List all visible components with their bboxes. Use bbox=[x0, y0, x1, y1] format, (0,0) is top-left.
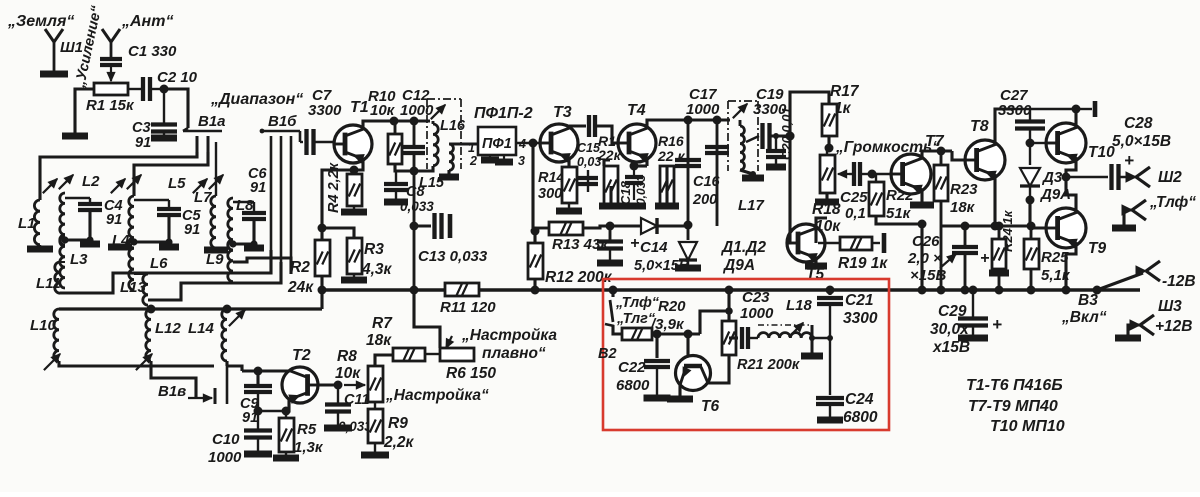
svg-text:С14: С14 bbox=[640, 239, 668, 256]
svg-text:С2 10: С2 10 bbox=[157, 69, 198, 86]
wire L11 bottom staircase bbox=[60, 250, 271, 293]
wire emitter node to C28 bbox=[1066, 176, 1108, 178]
svg-text:В1б: В1б bbox=[268, 113, 297, 130]
svg-text:91: 91 bbox=[135, 135, 151, 151]
inductor L7 bbox=[211, 196, 216, 248]
winding bottom to ground bbox=[740, 170, 753, 174]
svg-text:В1в: В1в bbox=[158, 383, 186, 400]
trimmer L14 bbox=[229, 310, 245, 326]
capacitor C17 1000 right drop bbox=[716, 120, 719, 226]
T7 emitter ground bbox=[920, 191, 923, 205]
T10 emitter down bbox=[1066, 160, 1076, 177]
resistor R23 18к bbox=[934, 165, 948, 201]
svg-text:„Ант“: „Ант“ bbox=[121, 13, 173, 30]
svg-text:R9: R9 bbox=[388, 415, 408, 432]
svg-text:5,1к: 5,1к bbox=[1041, 267, 1071, 284]
svg-text:R25: R25 bbox=[1041, 249, 1069, 266]
wire oscillator row bbox=[59, 307, 322, 310]
ground under C3 bbox=[163, 132, 165, 138]
svg-text:5,0×15В: 5,0×15В bbox=[1112, 133, 1171, 150]
svg-text:С1 330: С1 330 bbox=[128, 43, 177, 60]
capacitor C6 bbox=[233, 201, 254, 203]
capacitor C9 91 bbox=[244, 384, 272, 388]
transistor T9 bbox=[1046, 208, 1086, 248]
T4 collector bbox=[647, 120, 688, 127]
svg-text:„Земля“: „Земля“ bbox=[7, 13, 74, 30]
resistor R21 200к bbox=[722, 321, 736, 355]
diode Д1 bbox=[641, 218, 657, 234]
svg-text:В2: В2 bbox=[598, 346, 617, 362]
wire C9 node to R5 bbox=[258, 410, 286, 412]
svg-text:„Настройка: „Настройка bbox=[461, 327, 557, 344]
transistor T6 bbox=[676, 356, 711, 391]
wire R21 top to bus bbox=[727, 290, 730, 321]
svg-text:R21 200к: R21 200к bbox=[737, 357, 800, 373]
svg-text:3300: 3300 bbox=[308, 102, 342, 119]
wire C19 to C20 node bbox=[770, 134, 790, 137]
wire L18 to C21 line bbox=[812, 337, 830, 339]
ground under C8 bbox=[395, 190, 397, 202]
svg-text:„Тлф“: „Тлф“ bbox=[615, 295, 660, 311]
resistor R12 200к bbox=[528, 243, 543, 279]
svg-text:Ш2: Ш2 bbox=[1158, 169, 1182, 186]
wire C9 to C10 bbox=[257, 392, 259, 411]
jack Ш2 bbox=[1126, 172, 1136, 182]
T3 emitter down bbox=[567, 159, 570, 167]
node R20 right bbox=[652, 332, 700, 335]
svg-text:R2: R2 bbox=[290, 259, 310, 276]
svg-text:Ш3: Ш3 bbox=[1158, 298, 1182, 315]
svg-text:R5: R5 bbox=[297, 421, 317, 438]
wire R17 bottom bbox=[827, 136, 830, 148]
wire L10 bottom bbox=[59, 361, 180, 366]
T6 collector bbox=[708, 355, 729, 383]
ground under Ш1 bbox=[40, 71, 68, 78]
T9 base wire bbox=[1030, 200, 1046, 228]
T2 collector wire to C9 node bbox=[258, 369, 290, 372]
svg-text:В3: В3 bbox=[1078, 292, 1098, 309]
resistor R20 3,9к bbox=[622, 328, 652, 340]
svg-text:T10 МП10: T10 МП10 bbox=[990, 418, 1065, 435]
svg-text:R20: R20 bbox=[658, 298, 686, 315]
svg-text:24к: 24к bbox=[287, 279, 314, 296]
ground under C10 bbox=[257, 438, 259, 454]
capacitor near R14 bbox=[587, 170, 589, 192]
transformer box dashed bbox=[728, 101, 758, 171]
svg-text:2: 2 bbox=[469, 154, 477, 168]
capacitor C20 0,01 bbox=[775, 136, 777, 149]
capacitor C13 0,033 bbox=[414, 225, 431, 228]
svg-text:+: + bbox=[630, 235, 639, 252]
ground under C22 bbox=[656, 367, 658, 398]
bus node Тлф switch bbox=[609, 286, 618, 295]
inductor L9 bbox=[228, 240, 233, 282]
svg-text:С23: С23 bbox=[742, 289, 770, 306]
switch В1б wires down bbox=[270, 136, 273, 250]
jack Тлф bbox=[1122, 205, 1132, 215]
ground under R9 bbox=[374, 443, 376, 455]
trimmer L10 bbox=[44, 354, 60, 370]
svg-text:R11 120: R11 120 bbox=[440, 299, 496, 316]
svg-text:6800: 6800 bbox=[616, 377, 650, 394]
svg-text:L2: L2 bbox=[82, 173, 100, 190]
svg-text:0,1: 0,1 bbox=[845, 205, 866, 222]
ground under C6 branch bbox=[253, 244, 255, 248]
wire L12 bottom bbox=[151, 361, 180, 378]
wire L5 top to В1а bbox=[134, 152, 208, 196]
wire L1 top to В1а bbox=[40, 152, 197, 200]
svg-text:6800: 6800 bbox=[843, 409, 878, 426]
wire R13 node up to T3 base node bbox=[531, 143, 534, 228]
svg-text:С11: С11 bbox=[344, 392, 370, 408]
svg-text:„Тлг“: „Тлг“ bbox=[616, 311, 656, 327]
svg-text:+: + bbox=[1124, 151, 1134, 170]
svg-text:+: + bbox=[980, 250, 989, 267]
svg-text:С24: С24 bbox=[845, 391, 874, 408]
wire R17 top bbox=[790, 92, 829, 136]
svg-text:2,0 ×: 2,0 × bbox=[907, 250, 942, 267]
svg-text:В1а: В1а bbox=[198, 113, 226, 130]
svg-text:×15В: ×15В bbox=[910, 267, 946, 284]
svg-text:„Вкл“: „Вкл“ bbox=[1061, 309, 1107, 326]
svg-text:С26: С26 bbox=[912, 233, 940, 250]
capacitor C25 0,1 bbox=[852, 162, 856, 186]
wire to T2 stage bbox=[227, 366, 242, 371]
bus to R2 node bbox=[318, 286, 327, 295]
wire Тлг to R20 bbox=[613, 325, 622, 334]
main bus wire bbox=[322, 288, 1140, 292]
svg-text:91: 91 bbox=[184, 222, 200, 238]
svg-text:Д9А: Д9А bbox=[722, 257, 755, 274]
svg-text:0,033: 0,033 bbox=[634, 175, 648, 205]
trimmer transformer bbox=[733, 104, 747, 118]
capacitor bar after R19 bbox=[872, 242, 880, 244]
capacitor C11 0,033 bbox=[337, 385, 339, 403]
svg-text:„Диапазон“: „Диапазон“ bbox=[210, 91, 303, 108]
ground under C14 bbox=[609, 249, 611, 263]
resistor R13 43к bbox=[549, 222, 583, 235]
svg-text:18к: 18к bbox=[950, 199, 976, 216]
wire L15 bottom to ground bbox=[447, 170, 450, 177]
trimmer L5 arrows bbox=[111, 179, 125, 193]
wire C25 to T7 base bbox=[872, 173, 891, 175]
red highlight rectangle bbox=[603, 279, 889, 430]
svg-text:1000: 1000 bbox=[400, 102, 434, 119]
svg-text:плавно“: плавно“ bbox=[482, 345, 546, 362]
capacitor C8 0,033 bbox=[395, 171, 397, 182]
wire L13 bottom staircase bbox=[148, 262, 281, 300]
capacitor C16 200 left drop bbox=[687, 120, 690, 225]
resistor R25 5,1к bbox=[1024, 239, 1039, 269]
resistor R22 51к bbox=[869, 182, 884, 216]
trimmer L2 bbox=[43, 179, 57, 193]
svg-text:L17: L17 bbox=[738, 197, 765, 214]
capacitor C10 1000 bbox=[257, 411, 259, 430]
ground under C4 branch bbox=[89, 240, 91, 244]
ground Ш3 bbox=[1128, 325, 1140, 338]
inductor L15 winding bbox=[449, 144, 453, 170]
ground pins ПФ1 bbox=[489, 155, 491, 160]
svg-text:1: 1 bbox=[468, 141, 475, 155]
ground under Д2 bbox=[687, 260, 689, 268]
wire T7 to T8 base bbox=[937, 147, 946, 156]
svg-text:Д1.Д2: Д1.Д2 bbox=[720, 239, 766, 256]
svg-text:ПФ1: ПФ1 bbox=[482, 136, 512, 152]
switch В2 blade bbox=[611, 290, 614, 297]
resistor R9 2,2к bbox=[374, 402, 376, 409]
svg-text:L14: L14 bbox=[188, 320, 215, 337]
svg-text:С29: С29 bbox=[938, 303, 967, 320]
svg-text:4,3к: 4,3к bbox=[361, 261, 393, 278]
svg-text:L16: L16 bbox=[440, 118, 466, 134]
capacitor C4 91 bbox=[65, 197, 90, 199]
jack -12В bbox=[1136, 266, 1146, 276]
resistor R3 4,3к bbox=[347, 238, 362, 274]
trimmer L12 bbox=[136, 354, 152, 370]
T9 collector up bbox=[1066, 177, 1076, 212]
capacitor C12 in drop bbox=[413, 121, 416, 145]
ground under C29 bbox=[972, 326, 974, 338]
svg-text:R1 15к: R1 15к bbox=[86, 97, 135, 114]
svg-text:T2: T2 bbox=[292, 347, 311, 364]
svg-text:T1-T6 П416Б: T1-T6 П416Б bbox=[966, 377, 1063, 394]
svg-text:3300: 3300 bbox=[998, 102, 1032, 119]
wire R10 bottom to node bbox=[395, 164, 414, 171]
svg-text:91: 91 bbox=[106, 212, 122, 228]
svg-text:3: 3 bbox=[518, 154, 525, 168]
svg-text:R3: R3 bbox=[364, 241, 384, 258]
T10 collector bar bbox=[1076, 108, 1092, 110]
diode Д3 Д9А bbox=[1029, 143, 1031, 165]
svg-text:2,2к: 2,2к bbox=[383, 434, 415, 451]
svg-text:R16: R16 bbox=[658, 133, 684, 149]
T5 collector bbox=[816, 218, 827, 227]
svg-text:18к: 18к bbox=[366, 332, 392, 349]
svg-text:L1: L1 bbox=[18, 215, 36, 232]
svg-text:Д3: Д3 bbox=[1041, 169, 1063, 186]
svg-text:T8: T8 bbox=[970, 118, 989, 135]
T5 emitter bbox=[814, 259, 817, 266]
svg-text:T4: T4 bbox=[627, 102, 646, 119]
capacitor C24 6800 bbox=[829, 338, 831, 395]
svg-text:1,3к: 1,3к bbox=[294, 439, 324, 456]
wire C4 branch bbox=[65, 210, 90, 240]
electrolytic C26 bbox=[964, 226, 967, 245]
switch В3 bbox=[1093, 286, 1102, 295]
T10 collector wire bbox=[1074, 109, 1077, 126]
svg-text:С22: С22 bbox=[618, 359, 646, 376]
svg-text:ПФ1П-2: ПФ1П-2 bbox=[474, 105, 533, 122]
svg-text:L9: L9 bbox=[206, 251, 224, 268]
potentiometer R1 15к bbox=[94, 83, 128, 95]
ground under C24 bbox=[829, 404, 831, 420]
ground under L7 bbox=[215, 248, 217, 250]
svg-text:С3: С3 bbox=[132, 120, 151, 136]
svg-text:L7: L7 bbox=[194, 189, 212, 206]
svg-text:L5: L5 bbox=[168, 175, 186, 192]
trimmer L8 arrows bbox=[193, 179, 207, 193]
T1 emitter node bbox=[354, 160, 363, 170]
svg-text:+: + bbox=[992, 315, 1002, 334]
inductor transformer winding bbox=[730, 119, 740, 121]
node C9 top bbox=[242, 371, 258, 384]
ground Тлф bbox=[1112, 225, 1136, 232]
trimmer L16 bbox=[431, 105, 445, 119]
svg-text:„Настройка“: „Настройка“ bbox=[385, 387, 489, 404]
svg-text:+12В: +12В bbox=[1155, 318, 1193, 335]
svg-text:T3: T3 bbox=[553, 104, 572, 121]
svg-text:T1: T1 bbox=[350, 99, 369, 116]
svg-text:T6: T6 bbox=[701, 398, 719, 415]
ground under R1 bbox=[62, 133, 88, 140]
ground under R3 bbox=[353, 274, 355, 280]
svg-text:С10: С10 bbox=[212, 431, 240, 448]
resistor R18 bottom bbox=[825, 193, 828, 202]
T6 emitter ground bbox=[678, 385, 681, 399]
svg-text:1000: 1000 bbox=[686, 101, 720, 118]
svg-text:3300: 3300 bbox=[843, 310, 878, 327]
svg-text:300: 300 bbox=[538, 186, 562, 202]
svg-text:R19 1к: R19 1к bbox=[838, 255, 888, 272]
svg-text:R8: R8 bbox=[337, 348, 357, 365]
ground bar under R24 bbox=[998, 269, 1001, 273]
svg-text:200: 200 bbox=[692, 192, 717, 208]
svg-text:L6: L6 bbox=[150, 255, 168, 272]
svg-text:R23: R23 bbox=[950, 181, 978, 198]
wire L14 bottom bbox=[225, 361, 228, 366]
svg-text:С13 0,033: С13 0,033 bbox=[418, 248, 488, 265]
resistor R19 1к bbox=[816, 242, 838, 244]
wire L16 bottom to node bbox=[414, 166, 433, 171]
ground L18 bbox=[810, 352, 813, 356]
capacitor C5 91 bbox=[134, 199, 169, 201]
T4 emitter bbox=[645, 159, 648, 166]
T8 collector to C27 rail bbox=[995, 109, 1014, 143]
wire T6 base feed bbox=[700, 311, 729, 334]
wire bus left down to osc row bbox=[320, 290, 323, 309]
potentiometer R8 10к bbox=[344, 384, 365, 386]
filter ПФ1 box bbox=[478, 127, 516, 155]
T7 collector bbox=[922, 151, 952, 158]
ground under R4 bbox=[353, 206, 355, 212]
R22 bottom wire bbox=[876, 216, 922, 224]
svg-text:91: 91 bbox=[250, 180, 266, 196]
electrolytic C29 30,0x15В bbox=[969, 286, 978, 295]
wire R7 to bus drop bbox=[414, 290, 440, 348]
ground under R5 bbox=[285, 452, 287, 458]
T1 collector to top rail bbox=[363, 121, 390, 128]
svg-text:L18: L18 bbox=[786, 297, 813, 314]
potentiometer R18 10к bbox=[820, 155, 835, 193]
T5 base from C19 node bbox=[787, 136, 790, 243]
inductor L16 winding bbox=[432, 121, 435, 124]
wire node down to bus bbox=[413, 171, 416, 290]
svg-text:10к: 10к bbox=[370, 102, 396, 119]
svg-text:R7: R7 bbox=[372, 315, 393, 332]
svg-text:R6 150: R6 150 bbox=[446, 365, 496, 382]
wire R1 left to ground bbox=[75, 89, 94, 136]
ground under L1 bbox=[39, 245, 41, 249]
top rail T4 to transformer bbox=[660, 119, 730, 122]
capacitor C2 10 bbox=[128, 88, 143, 90]
transistor T5 bbox=[787, 224, 825, 262]
svg-text:„Тлф“: „Тлф“ bbox=[1149, 194, 1196, 211]
wire R2 top bbox=[320, 212, 323, 228]
electrolytic C14 5,0x15В bbox=[609, 226, 612, 240]
ground under C5 branch bbox=[168, 242, 170, 247]
jack Ш1 bbox=[45, 29, 54, 42]
transistor T10 bbox=[1046, 123, 1086, 163]
node C16 bottom bbox=[684, 221, 693, 230]
wire L15 top to ПФ1 bbox=[449, 142, 478, 145]
jack Ант bbox=[102, 29, 111, 42]
T8 emitter bbox=[993, 177, 996, 226]
node rail under output stage bbox=[941, 224, 1031, 227]
diode Д2 vertical bbox=[687, 226, 690, 240]
svg-text:10к: 10к bbox=[335, 365, 361, 382]
svg-text:1000: 1000 bbox=[740, 305, 774, 322]
node after C2 bbox=[160, 85, 169, 94]
svg-text:С25: С25 bbox=[840, 189, 868, 206]
svg-text:L3: L3 bbox=[70, 251, 88, 268]
svg-text:х15В: х15В bbox=[932, 339, 970, 356]
svg-text:-12В: -12В bbox=[1162, 273, 1196, 290]
capacitor C21 3300 bbox=[828, 290, 831, 295]
T2 emitter to R5 node bbox=[286, 400, 289, 411]
T10 base wire bbox=[1030, 142, 1046, 144]
resistor R11 120 bbox=[445, 283, 479, 296]
svg-text:L12: L12 bbox=[155, 320, 182, 337]
capacitor C3 91 bbox=[163, 89, 165, 123]
svg-text:T7-T9 МП40: T7-T9 МП40 bbox=[968, 398, 1058, 415]
node L18 right bbox=[809, 335, 815, 341]
svg-text:С28: С28 bbox=[1124, 115, 1153, 132]
capacitor C22 6800 bbox=[655, 334, 658, 358]
T9 emitter down bbox=[1066, 244, 1076, 290]
wire C2 node to switch В1а bbox=[164, 89, 188, 128]
transformer L16 box dashed bbox=[427, 99, 461, 169]
ground under C11 bbox=[337, 412, 339, 428]
rail T1 stage bbox=[363, 120, 430, 123]
wire T2 base out bbox=[318, 383, 338, 386]
svg-text:51к: 51к bbox=[886, 205, 912, 222]
wire R12 top to R13 bbox=[533, 231, 536, 243]
ground L4 bbox=[108, 244, 132, 251]
svg-text:1000: 1000 bbox=[208, 449, 242, 466]
potentiometer R6 150 bbox=[440, 348, 474, 361]
grounds under T4 stage bbox=[599, 203, 623, 210]
wire ПФ1 to T3 bbox=[516, 142, 540, 144]
resistor R5 1,3к bbox=[285, 411, 287, 418]
wire L9 bottom staircase bbox=[233, 258, 291, 274]
capacitor C18 bbox=[625, 175, 643, 179]
svg-text:T9: T9 bbox=[1088, 240, 1106, 257]
svg-text:С21: С21 bbox=[845, 292, 873, 309]
svg-text:R17: R17 bbox=[830, 83, 860, 100]
ground under R14 bbox=[568, 203, 570, 211]
wire R22/T5 bottom to bus bbox=[920, 224, 923, 290]
